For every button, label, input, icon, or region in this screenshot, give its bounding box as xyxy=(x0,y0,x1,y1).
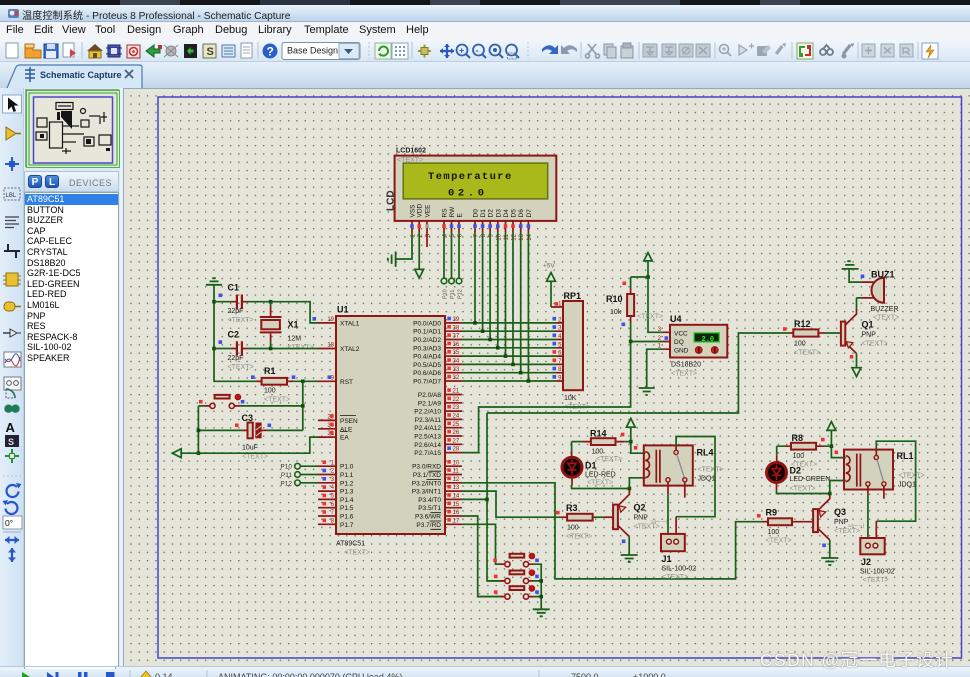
svg-text:X1: X1 xyxy=(288,320,299,330)
svg-text:S: S xyxy=(8,437,14,447)
svg-text:<TEXT>: <TEXT> xyxy=(587,480,613,487)
svg-text:RL1: RL1 xyxy=(897,451,914,461)
svg-text:38: 38 xyxy=(453,325,460,331)
svg-text:33: 33 xyxy=(453,367,460,373)
svg-text:<TEXT>: <TEXT> xyxy=(344,550,370,557)
svg-text:100: 100 xyxy=(793,453,805,460)
svg-text:<TEXT>: <TEXT> xyxy=(228,364,254,371)
svg-text:P0.5/AD5: P0.5/AD5 xyxy=(413,362,441,369)
svg-text:RW: RW xyxy=(449,206,456,218)
svg-text:<TEXT>: <TEXT> xyxy=(671,371,697,378)
svg-text:ANIMATING: 00:00:00.000070 (CP: ANIMATING: 00:00:00.000070 (CPU load 4%) xyxy=(218,672,402,677)
svg-text:7500.0: 7500.0 xyxy=(571,672,599,677)
svg-text:LCD1602: LCD1602 xyxy=(396,148,426,155)
svg-text:<TEXT>: <TEXT> xyxy=(397,157,423,164)
svg-text:36: 36 xyxy=(453,342,460,348)
svg-text:P2.4/A12: P2.4/A12 xyxy=(414,425,441,432)
svg-text:D3: D3 xyxy=(495,209,502,218)
svg-text:22pF: 22pF xyxy=(228,308,244,315)
svg-text:<TEXT>: <TEXT> xyxy=(242,454,268,461)
svg-text:RS: RS xyxy=(442,208,449,218)
svg-text:PNP: PNP xyxy=(862,332,877,339)
svg-text:P12: P12 xyxy=(457,289,463,299)
svg-text:≈⊢⊣: ≈⊢⊣ xyxy=(651,519,667,526)
svg-text:02.0: 02.0 xyxy=(448,188,488,200)
svg-text:DS18B20: DS18B20 xyxy=(671,362,701,369)
svg-text:D5: D5 xyxy=(511,209,518,218)
svg-text:?: ? xyxy=(267,45,274,59)
svg-text:GND: GND xyxy=(674,347,689,354)
svg-text:<TEXT>: <TEXT> xyxy=(863,577,889,584)
svg-text:JDQ1: JDQ1 xyxy=(698,476,716,483)
svg-text:14: 14 xyxy=(453,494,460,500)
svg-text:R1: R1 xyxy=(264,366,276,376)
svg-text:P3.4/T0: P3.4/T0 xyxy=(418,497,441,504)
svg-text:10K: 10K xyxy=(564,395,577,402)
svg-text:P0.7/AD7: P0.7/AD7 xyxy=(413,379,441,386)
svg-text:R9: R9 xyxy=(766,508,778,518)
svg-text:35: 35 xyxy=(453,350,460,356)
svg-text:23: 23 xyxy=(453,405,460,411)
svg-text:PNP: PNP xyxy=(634,515,649,522)
svg-text:DQ: DQ xyxy=(674,339,684,346)
svg-text:0.14: 0.14 xyxy=(155,672,173,677)
svg-text:24: 24 xyxy=(453,414,460,420)
svg-text:P1.5: P1.5 xyxy=(340,505,354,512)
svg-text:D1: D1 xyxy=(480,209,487,218)
svg-text:<TEXT>: <TEXT> xyxy=(766,538,792,545)
svg-text:P1.1: P1.1 xyxy=(340,472,354,479)
svg-text:R8: R8 xyxy=(792,433,804,443)
svg-text:32: 32 xyxy=(453,375,460,381)
svg-text:10k: 10k xyxy=(610,309,622,316)
svg-text:J1: J1 xyxy=(662,554,672,564)
svg-text:P3.6/WR: P3.6/WR xyxy=(415,514,441,521)
svg-text:P12: P12 xyxy=(280,480,292,487)
svg-text:<TEXT>: <TEXT> xyxy=(790,485,816,492)
svg-text:LBL: LBL xyxy=(6,193,17,199)
svg-text:Base Design: Base Design xyxy=(287,46,338,56)
svg-text:<TEXT>: <TEXT> xyxy=(228,317,254,324)
svg-text:P10: P10 xyxy=(442,289,448,299)
svg-text:LCD: LCD xyxy=(386,190,397,211)
svg-text:-: - xyxy=(476,46,479,56)
svg-text:100: 100 xyxy=(794,341,806,348)
svg-text:10uF: 10uF xyxy=(242,445,258,452)
svg-text:<TEXT>: <TEXT> xyxy=(873,315,899,322)
svg-text:P2.5/A13: P2.5/A13 xyxy=(414,434,441,441)
svg-text:<TEXT>: <TEXT> xyxy=(899,473,925,480)
svg-text:R12: R12 xyxy=(794,319,811,329)
svg-text:J2: J2 xyxy=(861,557,871,567)
svg-text:15: 15 xyxy=(453,502,460,508)
svg-text:AT89C51: AT89C51 xyxy=(336,541,365,548)
svg-text:16: 16 xyxy=(453,510,460,516)
svg-text:10: 10 xyxy=(453,460,460,466)
svg-text:D1: D1 xyxy=(585,461,597,471)
svg-text:P0.4/AD4: P0.4/AD4 xyxy=(413,354,441,361)
svg-text:<TEXT>: <TEXT> xyxy=(662,574,688,581)
svg-text:Q1: Q1 xyxy=(862,320,874,330)
svg-text:26: 26 xyxy=(453,430,460,436)
svg-text:P2.2/A10: P2.2/A10 xyxy=(414,409,441,416)
svg-text:12: 12 xyxy=(453,477,460,483)
svg-text:P2.0/A8: P2.0/A8 xyxy=(418,392,442,399)
svg-text:P1.3: P1.3 xyxy=(340,489,354,496)
svg-text:LED-RED: LED-RED xyxy=(585,472,616,479)
svg-text:D6: D6 xyxy=(518,209,525,218)
svg-text:PNP: PNP xyxy=(834,519,849,526)
svg-text:P3.5/T1: P3.5/T1 xyxy=(418,505,441,512)
svg-text:100: 100 xyxy=(768,529,780,536)
svg-text:E: E xyxy=(457,213,464,218)
svg-text:D4: D4 xyxy=(503,209,510,218)
svg-text:P1.2: P1.2 xyxy=(340,480,354,487)
svg-text:R3: R3 xyxy=(566,503,578,513)
svg-text:P0.1/AD1: P0.1/AD1 xyxy=(413,329,441,336)
svg-text:D7: D7 xyxy=(526,209,533,218)
svg-text:<TEXT>: <TEXT> xyxy=(637,314,663,321)
svg-text:XTAL1: XTAL1 xyxy=(340,320,360,327)
svg-text:21: 21 xyxy=(453,389,460,395)
svg-text:P3.3/INT1: P3.3/INT1 xyxy=(412,489,442,496)
svg-text:P3.0/RXD: P3.0/RXD xyxy=(412,464,441,471)
svg-text:34: 34 xyxy=(453,359,460,365)
svg-text:P1.7: P1.7 xyxy=(340,522,354,529)
svg-text:R10: R10 xyxy=(606,294,623,304)
svg-text:A: A xyxy=(6,420,16,435)
svg-text:28: 28 xyxy=(453,447,460,453)
svg-text:12M: 12M xyxy=(288,336,302,343)
svg-text:25: 25 xyxy=(453,422,460,428)
svg-text:D2: D2 xyxy=(790,466,802,476)
svg-text:VCC: VCC xyxy=(674,330,688,337)
svg-text:11: 11 xyxy=(453,469,460,475)
svg-text:27: 27 xyxy=(453,438,460,444)
svg-text:P2.1/A9: P2.1/A9 xyxy=(418,400,442,407)
svg-text:<TEXT>: <TEXT> xyxy=(794,350,820,357)
svg-text:<TEXT>: <TEXT> xyxy=(596,456,622,463)
svg-text:VSS: VSS xyxy=(410,204,417,218)
svg-text:RP1: RP1 xyxy=(564,291,582,301)
svg-text:+: + xyxy=(459,46,464,56)
svg-text:SIL-100-02: SIL-100-02 xyxy=(860,569,895,576)
svg-text:22pF: 22pF xyxy=(228,355,244,362)
svg-text:P0.0/AD0: P0.0/AD0 xyxy=(413,320,441,327)
svg-text:D0: D0 xyxy=(473,209,480,218)
svg-text:39: 39 xyxy=(453,317,460,323)
svg-text:U1: U1 xyxy=(337,305,349,315)
svg-text:<TEXT>: <TEXT> xyxy=(698,467,724,474)
svg-text:RST: RST xyxy=(340,379,353,386)
svg-text:0°: 0° xyxy=(5,518,13,528)
svg-text:17: 17 xyxy=(453,518,460,524)
svg-text:Schematic Capture: Schematic Capture xyxy=(40,70,122,80)
svg-text:+5V: +5V xyxy=(543,263,555,270)
svg-text:P2.6/A14: P2.6/A14 xyxy=(414,442,441,449)
svg-text:XTAL2: XTAL2 xyxy=(340,346,360,353)
svg-text:BUZZER: BUZZER xyxy=(871,306,899,313)
svg-text:P1.0: P1.0 xyxy=(340,464,354,471)
svg-text:LED-GREEN: LED-GREEN xyxy=(790,476,831,483)
svg-text:<TEXT>: <TEXT> xyxy=(264,397,290,404)
svg-text:<TEXT>: <TEXT> xyxy=(862,341,888,348)
svg-text:22: 22 xyxy=(453,397,460,403)
svg-text:Q2: Q2 xyxy=(634,503,646,513)
svg-text:100: 100 xyxy=(592,449,604,456)
svg-text:RL4: RL4 xyxy=(697,448,714,458)
svg-text:37: 37 xyxy=(453,334,460,340)
svg-text:P1.4: P1.4 xyxy=(340,497,354,504)
svg-text:P3.2/INT0: P3.2/INT0 xyxy=(412,480,442,487)
svg-text:P0.6/AD6: P0.6/AD6 xyxy=(413,370,441,377)
svg-text:19: 19 xyxy=(327,317,334,323)
svg-text:P11: P11 xyxy=(450,290,456,299)
svg-text:C2: C2 xyxy=(228,330,240,340)
svg-text:BUZ1: BUZ1 xyxy=(871,270,895,280)
svg-text:≈⊢⊣: ≈⊢⊣ xyxy=(848,523,864,530)
svg-text:Temperature: Temperature xyxy=(428,171,513,183)
svg-text:13: 13 xyxy=(453,485,460,491)
svg-text:PSEN: PSEN xyxy=(340,418,358,425)
svg-text:+1000.0: +1000.0 xyxy=(633,672,666,677)
svg-text:R14: R14 xyxy=(590,429,607,439)
svg-text:S: S xyxy=(207,46,214,58)
svg-text:ALE: ALE xyxy=(340,426,353,433)
svg-text:C3: C3 xyxy=(242,413,254,423)
svg-text:18: 18 xyxy=(327,343,334,349)
svg-text:D2: D2 xyxy=(488,209,495,218)
svg-text:VDD: VDD xyxy=(417,203,424,217)
svg-text:Q3: Q3 xyxy=(834,507,846,517)
svg-text:P3.7/RD: P3.7/RD xyxy=(416,522,441,529)
svg-text:P3.1/TXD: P3.1/TXD xyxy=(413,472,441,479)
svg-text:P0.3/AD3: P0.3/AD3 xyxy=(413,345,441,352)
svg-text:100: 100 xyxy=(264,388,276,395)
svg-text:U4: U4 xyxy=(670,314,682,324)
svg-text:C1: C1 xyxy=(228,283,240,293)
svg-text:P2.7/A15: P2.7/A15 xyxy=(414,450,441,457)
svg-text:P11: P11 xyxy=(281,472,292,479)
svg-text:2.0: 2.0 xyxy=(702,336,715,344)
svg-text:P2.3/A11: P2.3/A11 xyxy=(415,417,442,424)
svg-text:P1.6: P1.6 xyxy=(340,514,354,521)
svg-text:SIL-100-02: SIL-100-02 xyxy=(662,566,697,573)
svg-text:VEE: VEE xyxy=(425,204,432,218)
svg-text:P10: P10 xyxy=(280,464,292,471)
svg-text:100: 100 xyxy=(567,525,579,532)
svg-text:EA: EA xyxy=(340,435,349,442)
svg-text:P0.2/AD2: P0.2/AD2 xyxy=(413,337,441,344)
svg-text:<TEXT>: <TEXT> xyxy=(566,534,592,541)
svg-text:JDQ1: JDQ1 xyxy=(898,482,916,489)
